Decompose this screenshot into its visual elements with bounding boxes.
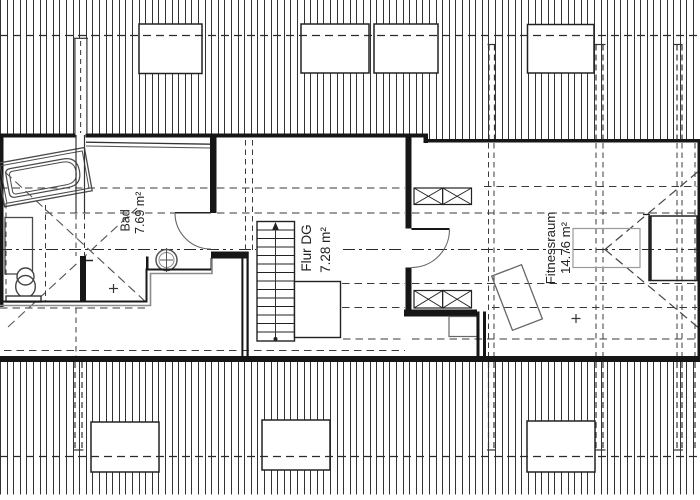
fitness door leaf (412, 228, 450, 230)
roof slope diagonal A (bath) (5, 172, 148, 304)
skylight top C (374, 24, 438, 73)
svg-text:Bad: Bad (119, 209, 133, 231)
roof height line y188 (0, 187, 210, 189)
staircase (257, 222, 295, 342)
bath south wall double line (stepped) (0, 258, 212, 306)
ridge offset dashed line top band (0, 35, 700, 37)
toilet cistern (6, 296, 41, 302)
chimney side lines through tub (75, 135, 77, 213)
niche rectangle (449, 317, 477, 337)
truss axis pair bottom band 3 (676, 362, 678, 450)
fitness axis pair x597 x604 (595, 143, 597, 356)
flur south wall horizontal band (404, 310, 477, 317)
chimney gap in eaves wall (76, 133, 86, 139)
roof height line y213 (45, 212, 210, 214)
svg-text:14.76 m²: 14.76 m² (558, 221, 573, 274)
bath door swing arc (175, 213, 211, 249)
svg-text:Fitnessraum: Fitnessraum (543, 212, 558, 285)
wall flur/fitness upper (406, 134, 412, 229)
eaves wall line under top band left (0, 134, 427, 138)
washbasin (156, 250, 177, 271)
flur corner wall thick horizontal (211, 252, 249, 259)
roof height line y308 (0, 307, 150, 309)
equipment rectangle light (573, 229, 640, 268)
bathtub (0, 147, 92, 206)
svg-text:Flur DG: Flur DG (299, 224, 314, 271)
roof hip dashed lower (605, 250, 700, 330)
plus mark fitness (572, 318, 581, 320)
skylight bottom E (91, 422, 159, 472)
stair void rectangle (295, 282, 341, 338)
axis x45 bath (45, 205, 47, 302)
roof height line y339 (343, 338, 405, 340)
eaves wall line under top band right (427, 139, 700, 143)
fitness axis pair x675 x681 (676, 143, 678, 356)
roof hatching bottom band (1, 362, 700, 495)
toilet bowl (17, 268, 34, 285)
chimney shaft dashed (bottom band) (74, 362, 76, 450)
equipment rectangle right (649, 216, 697, 281)
roof edge dashed right bottom band (694, 362, 696, 450)
axis end caps bottom band (74, 449, 684, 451)
skylight top D (528, 25, 595, 74)
wall flur/fitness lower stub (406, 268, 412, 312)
right outer wall (698, 139, 700, 361)
skylight top A (139, 24, 202, 74)
fitness door swing arc (412, 230, 450, 268)
eaves wall step connector (424, 134, 429, 144)
truss axis pair top band 1 (488, 45, 490, 140)
fitness axis pair x488 x494 (488, 143, 490, 356)
bottom eaves wall line (0, 356, 700, 362)
chimney axis dashed below tub (75, 214, 77, 256)
exercise bench tilted (492, 265, 543, 331)
skylight top B (301, 24, 369, 73)
chimney stub wall (black) (80, 256, 86, 302)
svg-text:7.28 m²: 7.28 m² (318, 227, 333, 273)
bath north knee wall double line (86, 142, 211, 144)
stair enclosure wall vertical (241, 252, 243, 363)
skylight bottom F (262, 420, 330, 470)
roof hip dashed upper (605, 170, 700, 250)
skylight bottom G (527, 421, 595, 472)
cabinet row 2 (with X) (414, 291, 472, 309)
truss axis pair bottom band 1 (488, 362, 490, 450)
stair axis pair x245 x252 (245, 140, 247, 251)
truss axis pair top band 2 (595, 45, 597, 140)
stair walking line with arrow (275, 228, 277, 340)
ridge offset dashed line bottom band (0, 456, 700, 458)
ridge line y249 (0, 249, 697, 251)
svg-text:7.69 m²: 7.69 m² (133, 192, 147, 234)
left outer wall (0, 134, 4, 307)
bath vanity rectangle (5, 218, 33, 275)
roof height line y283 (342, 283, 405, 285)
plus mark bath (109, 288, 118, 290)
roof height line y350 flur (4, 350, 405, 352)
truss axis pair bottom band 2 (595, 362, 597, 450)
roof hatching top band (1, 0, 700, 140)
cabinet row 1 (with X) (414, 188, 472, 205)
roof edge dashed along left wall (5, 203, 7, 300)
fitness west wall double vertical (477, 312, 480, 363)
truss axis pair top band 3 (676, 45, 678, 140)
wall bath/flur (210, 137, 217, 213)
wall end stub at step corner (146, 257, 149, 270)
middle storey dashed axes vertical (46, 140, 696, 356)
bath door leaf (175, 212, 211, 214)
chimney shaft (top band): white interior, solid sides, dashed centre (75, 39, 88, 134)
roof slope diagonal B (bath) (8, 208, 137, 327)
